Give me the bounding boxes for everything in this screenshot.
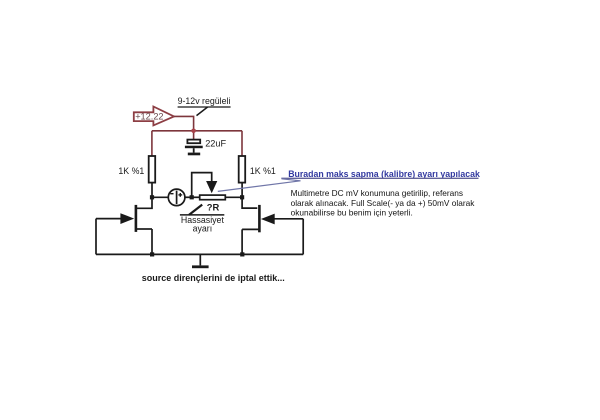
svg-text:source dirençlerini de iptal e: source dirençlerini de iptal ettik...: [142, 273, 285, 283]
svg-text:+12.22: +12.22: [135, 112, 163, 122]
svg-text:22uF: 22uF: [205, 139, 226, 149]
wire: Q2 gate down to bottom rail: [302, 219, 304, 255]
adjustment mark: diagonal and underline: [180, 205, 224, 215]
svg-text:ayarı: ayarı: [193, 224, 213, 234]
label: 9-12v reguleli: [178, 96, 231, 115]
svg-text:1K %1: 1K %1: [118, 166, 144, 176]
svg-text:okunabilirse bu benim için yet: okunabilirse bu benim için yeterli.: [291, 208, 413, 218]
node C junction dot: [240, 195, 244, 199]
svg-text:Buradan maks sapma (kalibre) a: Buradan maks sapma (kalibre) ayarı yapıl…: [288, 169, 480, 179]
wire: Q1 source down to bottom rail: [151, 229, 153, 254]
resistor R1 (left 1K %1): [149, 156, 156, 183]
wire: node A to meter left: [152, 196, 168, 198]
annotation: blue underline: [281, 177, 478, 179]
svg-text:1K %1: 1K %1: [250, 166, 276, 176]
ground: under C1: [188, 153, 200, 156]
wire: node A down to Q1 drain: [137, 197, 152, 208]
junction: Q2 source on rail: [240, 252, 244, 256]
wire: pot right to node C: [225, 196, 242, 198]
junction: Q1 source on rail: [150, 252, 154, 256]
junction: red dot on rail: [191, 129, 196, 134]
resistor R2 (right 1K %1): [239, 156, 246, 183]
svg-text:olarak alınacak. Full Scale(-: olarak alınacak. Full Scale(- ya da +) 5…: [291, 198, 476, 208]
svg-text:Multimetre DC mV konumuna geti: Multimetre DC mV konumuna getirilip, ref…: [291, 188, 463, 198]
wire: Q1 gate down to bottom rail: [95, 219, 97, 255]
annotation: blue leader line: [218, 179, 301, 192]
wire: bottom rail: [96, 253, 303, 255]
wire: red drop to C1: [193, 131, 195, 140]
transistor Q2 (right JFET): [242, 205, 303, 232]
wire: R1 bottom to node A: [151, 183, 153, 198]
wire: red drop to R2: [241, 131, 243, 156]
potentiometer ?R body: [200, 195, 226, 200]
wire: red drop to R1: [151, 131, 153, 156]
wire: meter right to node B: [185, 196, 200, 198]
capacitor C1 22uF: [185, 140, 203, 153]
meter M1 (galvanometer): [168, 189, 185, 206]
node B junction dot: [190, 195, 194, 199]
power flag +12.22: [134, 107, 174, 126]
svg-text:?R: ?R: [207, 202, 220, 213]
wire: flag tip to rail drop (red): [174, 116, 194, 130]
wiper arrow of potentiometer: [206, 181, 217, 193]
node A junction dot: [150, 195, 154, 199]
wire: R2 bottom to node C: [241, 183, 243, 198]
wire: red power rail: [152, 130, 242, 132]
svg-text:9-12v regüleli: 9-12v regüleli: [178, 96, 231, 106]
wire: wiper loop of potentiometer: [192, 173, 212, 198]
wire: node C down to Q2 drain: [242, 197, 257, 208]
transistor Q1 (left JFET): [96, 205, 152, 232]
ground: bottom center: [192, 254, 209, 268]
annotation: paragraph: [291, 188, 476, 217]
wire: Q2 source down to bottom rail: [241, 229, 243, 254]
